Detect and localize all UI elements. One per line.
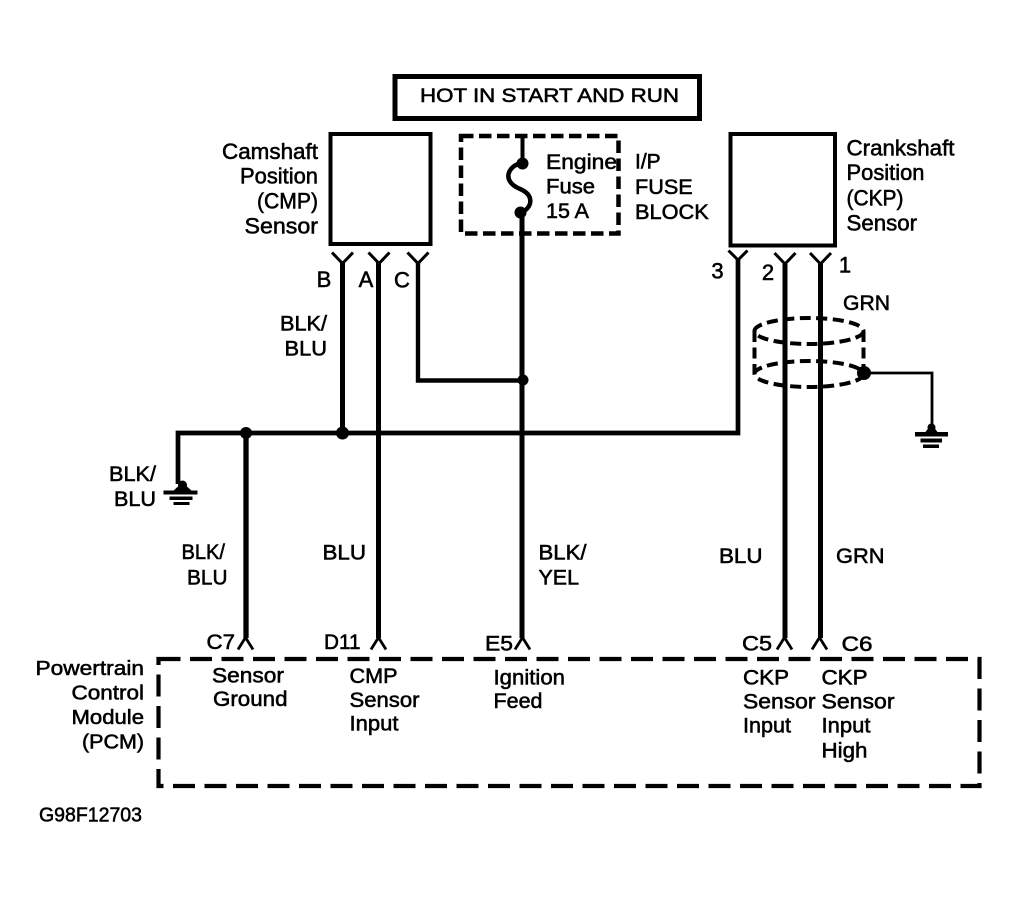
svg-text:Position: Position [240, 164, 318, 189]
svg-text:2: 2 [762, 260, 774, 285]
svg-text:D11: D11 [324, 631, 361, 654]
svg-text:C7: C7 [207, 631, 236, 654]
svg-text:Sensor: Sensor [212, 665, 284, 688]
svg-text:1: 1 [839, 253, 851, 278]
svg-text:Sensor: Sensor [245, 214, 319, 239]
svg-text:BLU: BLU [285, 338, 328, 361]
svg-text:CKP: CKP [822, 667, 868, 690]
svg-text:Engine: Engine [546, 151, 617, 174]
svg-text:C5: C5 [742, 633, 772, 656]
svg-text:(CKP): (CKP) [847, 186, 904, 211]
svg-text:BLK/: BLK/ [109, 463, 156, 486]
svg-text:Crankshaft: Crankshaft [847, 136, 955, 161]
svg-text:Fuse: Fuse [546, 176, 595, 199]
svg-text:BLK/: BLK/ [539, 542, 587, 565]
svg-text:CMP: CMP [350, 665, 398, 688]
svg-text:(CMP): (CMP) [257, 189, 318, 214]
svg-text:C: C [394, 268, 410, 293]
svg-text:Position: Position [847, 160, 925, 185]
svg-text:C6: C6 [842, 633, 873, 656]
svg-text:FUSE: FUSE [635, 176, 693, 199]
svg-text:E5: E5 [485, 633, 513, 656]
svg-text:Sensor: Sensor [350, 689, 420, 712]
svg-text:BLU: BLU [323, 542, 367, 565]
svg-text:B: B [317, 267, 332, 292]
svg-text:GRN: GRN [843, 292, 890, 315]
svg-text:BLU: BLU [719, 545, 763, 568]
svg-text:High: High [822, 740, 868, 763]
svg-text:15 A: 15 A [546, 200, 589, 223]
svg-text:I/P: I/P [635, 151, 661, 174]
svg-text:Control: Control [72, 682, 145, 705]
svg-text:BLU: BLU [187, 567, 228, 590]
svg-text:3: 3 [711, 259, 723, 284]
svg-text:Sensor: Sensor [743, 691, 816, 714]
svg-text:GRN: GRN [836, 545, 885, 568]
svg-text:BLK/: BLK/ [182, 541, 226, 564]
svg-text:Sensor: Sensor [822, 691, 895, 714]
svg-text:YEL: YEL [539, 567, 580, 590]
svg-text:Ignition: Ignition [494, 667, 566, 690]
svg-text:BLU: BLU [114, 488, 156, 511]
svg-text:Camshaft: Camshaft [222, 139, 318, 164]
svg-text:Feed: Feed [494, 690, 543, 713]
svg-text:BLOCK: BLOCK [635, 201, 709, 224]
svg-text:Input: Input [743, 715, 791, 738]
svg-text:Ground: Ground [213, 688, 288, 711]
svg-text:CKP: CKP [743, 667, 789, 690]
svg-text:G98F12703: G98F12703 [39, 804, 142, 827]
svg-text:Module: Module [72, 706, 145, 729]
svg-text:Input: Input [350, 713, 399, 736]
svg-text:Sensor: Sensor [847, 211, 918, 236]
svg-text:(PCM): (PCM) [82, 731, 144, 754]
svg-text:Powertrain: Powertrain [36, 657, 145, 680]
svg-text:HOT IN START AND RUN: HOT IN START AND RUN [420, 85, 679, 107]
svg-text:Input: Input [822, 715, 871, 738]
svg-text:A: A [359, 267, 374, 292]
svg-text:BLK/: BLK/ [280, 313, 327, 336]
